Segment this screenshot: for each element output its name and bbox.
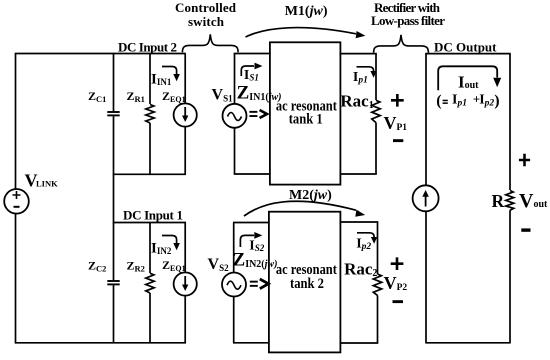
wire: left rail bottom segment	[15, 214, 17, 343]
svg-text:Ip2: Ip2	[356, 236, 371, 252]
svg-text:ZC2: ZC2	[88, 259, 106, 274]
resistor Rac1	[372, 54, 380, 174]
gain arrow M2	[244, 201, 365, 217]
wire: VS2 bottom to tank2	[233, 342, 270, 344]
svg-text:DC Input 1: DC Input 1	[123, 207, 183, 222]
current arrow Iout	[438, 66, 501, 90]
svg-text:Controlled: Controlled	[175, 0, 237, 15]
svg-text:Iout: Iout	[458, 73, 479, 92]
svg-text:IS1: IS1	[244, 68, 259, 83]
wire: DC output bottom rail	[425, 342, 510, 344]
svg-text:R: R	[492, 191, 505, 211]
svg-text:tank 1: tank 1	[289, 111, 323, 127]
wire: VS2 top to tank2	[233, 222, 270, 224]
svg-text:): )	[494, 92, 499, 109]
svg-text:Low-pass filter: Low-pass filter	[371, 13, 445, 28]
current source ZEQ1	[174, 54, 197, 175]
brace: controlled switch	[182, 34, 238, 52]
label minus VP1	[393, 139, 403, 142]
current arrow IS2	[240, 232, 262, 247]
current arrow Ip1	[357, 67, 377, 78]
brace: rectifier	[374, 35, 429, 53]
wire: tank2 to Rac2 bottom	[340, 342, 378, 344]
current source DC output	[413, 185, 439, 211]
wire: DC output left rail upper	[425, 54, 427, 186]
svg-text:ZC1: ZC1	[88, 89, 106, 104]
svg-text:IIN1: IIN1	[151, 72, 172, 88]
svg-text:ZEQ1: ZEQ1	[162, 89, 186, 104]
svg-text:Ip1: Ip1	[452, 92, 467, 108]
label tank2	[276, 262, 337, 292]
current arrow Ip2	[357, 233, 377, 244]
wire: VS1 bottom to tank1	[234, 173, 271, 175]
svg-text:DC Output: DC Output	[434, 39, 497, 54]
wire: tank1 to Rac1 top	[340, 53, 376, 55]
svg-text:ZIN1(jw): ZIN1(jw)	[237, 83, 282, 104]
svg-text:ZR1: ZR1	[127, 89, 145, 104]
label Rectifier with Low-pass filter	[371, 0, 445, 28]
current arrow IS1	[241, 63, 262, 76]
wire: top rail of DC Input 1	[113, 222, 186, 224]
block: ac resonant tank 1	[270, 42, 341, 184]
svg-text:(: (	[436, 92, 441, 109]
resistor Rac2	[373, 222, 381, 343]
svg-text:VS1: VS1	[212, 86, 234, 103]
svg-text:Rac1: Rac1	[340, 92, 373, 112]
current arrow IIN2	[162, 236, 180, 251]
current source ZEQ2	[174, 223, 197, 343]
wire: DC output top rail	[425, 53, 510, 55]
voltage source VLINK	[4, 189, 29, 214]
ac source VS1	[223, 54, 247, 175]
label tank1	[276, 99, 337, 128]
wire: DC output left rail lower	[425, 211, 427, 342]
svg-text:IIN2: IIN2	[151, 241, 172, 257]
svg-text:VP1: VP1	[384, 113, 408, 133]
svg-text:Rac2: Rac2	[344, 260, 377, 280]
wire: top rail of DC Input 2	[15, 53, 186, 55]
label plus Vout	[519, 154, 530, 166]
wire: tank2 to Rac2 top	[340, 221, 378, 223]
label plus VP1	[391, 94, 404, 107]
svg-text:VP2: VP2	[384, 273, 408, 293]
svg-text:M1(jw): M1(jw)	[285, 4, 328, 19]
svg-text:Vout: Vout	[519, 190, 548, 212]
gain arrow M1	[246, 28, 366, 39]
svg-text:switch: switch	[188, 14, 225, 29]
svg-text:ZR2: ZR2	[127, 259, 145, 274]
wire: left rail top segment	[15, 54, 17, 190]
wire: tank1 to Rac1 bottom	[340, 173, 376, 175]
svg-text:ZEQ1: ZEQ1	[162, 258, 186, 273]
wire: ZC1/ZC2 vertical branch	[113, 54, 115, 343]
block: ac resonant tank 2	[269, 212, 341, 353]
wire: bottom rail of DC Input 1	[15, 342, 186, 344]
capacitor ZC1	[107, 112, 119, 115]
arrow symbol into tank1	[249, 110, 267, 118]
arrow symbol into tank2	[250, 279, 269, 289]
current arrow IIN1	[162, 67, 180, 82]
svg-text:tank 2: tank 2	[290, 276, 324, 292]
label plus VP2	[391, 257, 404, 270]
ac source VS2	[222, 223, 246, 343]
svg-text:IS2: IS2	[249, 239, 264, 254]
label Controlled switch	[175, 0, 237, 29]
label minus Vout	[521, 228, 530, 231]
resistor R load	[506, 54, 514, 343]
resistor ZR1	[146, 54, 154, 175]
wire: VS1 top to tank1	[234, 53, 271, 55]
label minus VP2	[393, 300, 404, 303]
svg-text:Ip1: Ip1	[353, 70, 368, 86]
svg-text:VS2: VS2	[208, 256, 230, 273]
wire: bottom rail of DC Input 2	[113, 173, 186, 175]
resistor ZR2	[146, 223, 154, 343]
svg-text:DC Input 2: DC Input 2	[118, 39, 177, 54]
svg-text:VLINK: VLINK	[25, 171, 59, 191]
svg-text:Ip2: Ip2	[479, 92, 494, 108]
capacitor ZC2	[107, 281, 119, 284]
label Iout sum	[436, 91, 499, 109]
